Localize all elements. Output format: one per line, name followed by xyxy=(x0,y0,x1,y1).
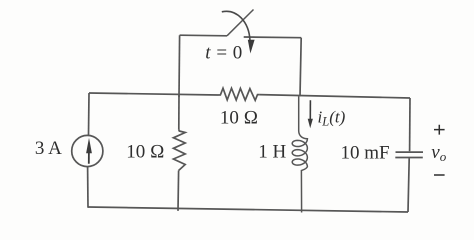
wire right upper xyxy=(409,98,411,151)
svg-text:t = 0: t = 0 xyxy=(205,43,243,64)
label plus xyxy=(434,125,445,135)
current arrow iL xyxy=(309,100,311,119)
wire branch C switch-right vertical xyxy=(300,38,301,97)
svg-text:10 Ω: 10 Ω xyxy=(220,108,258,129)
current source I1 circle xyxy=(72,135,103,166)
resistor R1 10ohm vertical zigzag xyxy=(173,130,185,171)
capacitor C1 bottom plate xyxy=(395,157,423,159)
svg-text:10 mF: 10 mF xyxy=(341,143,390,164)
switch SW closing arc xyxy=(222,11,250,40)
svg-text:vo: vo xyxy=(431,142,446,164)
wire top-left segment xyxy=(89,93,218,95)
switch SW right rail xyxy=(244,36,302,39)
wire branch B upper xyxy=(178,94,180,129)
label minus xyxy=(434,174,445,176)
current source I1 arrow xyxy=(88,151,90,164)
inductor L1 1H coil and branch C wire xyxy=(292,96,307,212)
svg-text:1 H: 1 H xyxy=(258,142,286,163)
wire left lower xyxy=(87,167,89,208)
wire bottom xyxy=(88,207,408,212)
wire top-right segment xyxy=(259,95,410,98)
wire left upper xyxy=(88,93,91,135)
svg-text:10 Ω: 10 Ω xyxy=(126,142,164,163)
resistor R2 10ohm horizontal zigzag xyxy=(218,88,259,100)
wire right lower xyxy=(408,158,409,212)
wire branch B switch-left vertical xyxy=(178,35,181,97)
svg-text:3 A: 3 A xyxy=(35,138,62,159)
switch SW arrowhead xyxy=(248,40,255,54)
capacitor C1 top plate xyxy=(396,151,424,153)
svg-text:iL(t): iL(t) xyxy=(318,108,346,129)
switch SW left rail xyxy=(180,34,227,37)
wire branch B lower xyxy=(177,171,180,211)
switch SW blade xyxy=(227,10,254,36)
